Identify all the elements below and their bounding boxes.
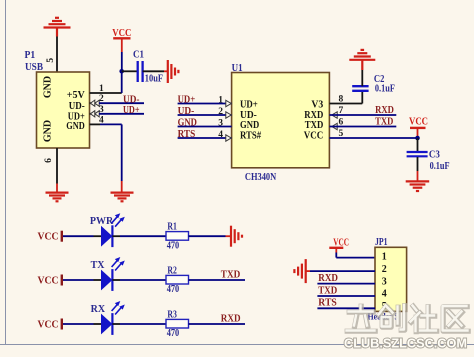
pin number 5 (rotated) [46,58,56,63]
svg-text:C1: C1 [133,50,144,61]
value 470 (R2) [167,284,180,295]
pin 3 of P1 [90,105,105,117]
label RX [91,304,106,315]
svg-text:VCC: VCC [38,320,59,331]
wire RTS to U1 pin4 [178,137,232,139]
svg-text:RXD: RXD [221,313,241,324]
svg-text:R2: R2 [167,266,177,277]
svg-text:GND: GND [43,120,54,142]
svg-text:VCC: VCC [38,232,59,243]
wire ground to JP1 pin2 [306,270,375,272]
svg-text:CLUB.SZLCSC.COM: CLUB.SZLCSC.COM [344,335,467,350]
connector P1 body [37,72,90,148]
svg-text:3: 3 [382,276,387,287]
svg-text:10uF: 10uF [145,73,163,84]
svg-text:2: 2 [218,107,223,117]
svg-text:+5V: +5V [67,90,86,101]
svg-text:3: 3 [218,119,223,129]
svg-text:1: 1 [382,251,387,262]
svg-text:P1: P1 [25,50,36,61]
label TX [91,260,106,271]
label PWR [90,216,114,227]
IC U1 CH340N body [232,73,330,168]
svg-text:UD-: UD- [178,106,195,117]
wire LED to R2 [120,279,166,281]
svg-text:UD+: UD+ [178,94,196,105]
ground GND-JP1 (rotated left) [294,259,305,283]
wire UD- from P1 pin2 [99,102,144,104]
pin 2 of U1 [218,107,231,118]
capacitor C2 [352,70,368,91]
LED RX [94,301,125,335]
designator U1 [232,63,243,74]
power port VCC JP1 [329,238,349,253]
svg-text:TXD: TXD [305,120,324,131]
net label UD- (U1) [178,106,195,117]
value 470 (R1) [167,240,180,251]
wire junction down to pin1 [121,71,123,93]
resistor R3 [166,319,189,328]
LED TX [94,257,125,291]
svg-text:4: 4 [382,289,387,300]
value 0.1uF (C3) [430,161,450,172]
pin 7 of U1 [332,106,344,118]
net label RXD (U1) [375,105,394,116]
svg-text:470: 470 [167,240,180,251]
svg-text:VCC: VCC [38,276,59,287]
part name CH340N [245,172,277,183]
resistor R2 [166,275,189,284]
net label TXD (U1) [375,116,393,127]
ground GND-P1pin4 [111,193,134,202]
designator JP1 [375,237,388,248]
designator P1 [25,50,36,61]
pin 3 of U1 [218,119,223,129]
pin 5 of U1 [339,129,344,139]
power port VCC top [112,28,131,52]
wire RXD from U1 pin7 [329,114,396,116]
comment USB [25,62,43,73]
wire UD- to U1 pin2 [178,114,232,116]
net label RXD (JP1) [318,273,338,284]
net label TXD (JP1) [318,285,337,296]
value 10uF [145,73,163,84]
svg-text:UD-: UD- [123,95,140,106]
svg-text:TXD: TXD [221,269,241,280]
svg-text:USB: USB [25,62,43,73]
svg-text:1: 1 [218,96,223,106]
wire VCC to LED D3 [63,323,94,325]
ground GND-C1 (rotated) [168,60,179,83]
wire GND to U1 pin3 [178,126,232,128]
wire U1 pin8 to C2 [329,91,362,104]
wire TXD from U1 pin6 [329,126,396,128]
designator R1 [167,222,177,233]
wire R3 to RXD [189,323,246,325]
svg-text:UD+: UD+ [240,100,258,111]
wire TXD to JP1 pin4 [317,295,375,297]
svg-text:V3: V3 [311,100,323,111]
net label UD+ (U1) [178,94,196,105]
connector JP1 body [375,247,407,311]
svg-text:0.1uF: 0.1uF [375,84,395,95]
pin 8 of U1 [339,95,344,105]
wire junction to C1 [122,70,137,72]
pin 6 of P1 [44,148,57,192]
svg-text:GND: GND [240,120,259,131]
svg-text:RXD: RXD [375,105,394,116]
power port VCC right [409,117,428,138]
svg-text:RTS#: RTS# [240,131,261,142]
value 470 (R3) [167,328,180,339]
svg-text:R1: R1 [167,222,177,233]
net label RTS (JP1) [318,298,337,309]
wire LED to R3 [120,323,166,325]
ground GND-C2 (flipped) [349,50,375,70]
ground GND-C3 [406,181,430,191]
svg-text:4: 4 [218,130,223,140]
wire P1 pin4 to ground [100,124,122,192]
svg-text:CH340N: CH340N [245,172,277,183]
power port VCC row1 (bar style) [38,231,62,243]
svg-text:0.1uF: 0.1uF [430,161,450,172]
svg-text:6: 6 [44,158,54,163]
wire R1 to ground [189,235,232,237]
pin 4 of P1 [90,115,105,125]
designator C1 [133,50,144,61]
svg-text:R3: R3 [167,310,177,321]
svg-text:VCC: VCC [409,117,428,128]
net label GND (U1) [178,117,197,128]
svg-text:C3: C3 [429,150,440,161]
svg-text:2: 2 [382,264,387,275]
wire P1 pin5 to ground [56,37,58,73]
resistor R1 [166,232,189,241]
watermark logo 立创社区 [347,306,468,332]
wire RTS to JP1 pin5 [317,307,375,309]
svg-text:TX: TX [91,260,106,271]
svg-text:RTS: RTS [178,129,196,140]
wire UD+ to U1 pin1 [178,103,232,105]
svg-text:470: 470 [167,328,180,339]
capacitor C3 [407,152,428,156]
wire UD+ from P1 pin3 [99,113,144,115]
svg-text:UD-: UD- [69,101,85,112]
wire VCC to LED D2 [63,279,94,281]
svg-text:VCC: VCC [304,131,324,142]
svg-text:470: 470 [167,284,180,295]
wire VCC to LED D1 [63,235,94,237]
LED PWR [94,213,125,247]
wire U1 pin5 to VCC junction [329,137,417,139]
designator R2 [167,266,177,277]
svg-text:TXD: TXD [318,285,337,296]
svg-text:RXD: RXD [318,273,338,284]
ground GND-P1pin6 [46,193,69,202]
power port VCC row3 (bar style) [38,319,62,331]
svg-text:JP1: JP1 [375,237,388,248]
svg-text:RX: RX [91,304,106,315]
part name Header 5 [368,312,399,322]
svg-text:RTS: RTS [318,298,337,309]
junction node at C1 [119,69,124,74]
ground GND-R1 (rotated) [231,226,242,247]
svg-text:GND: GND [178,117,197,128]
svg-text:GND: GND [66,121,85,132]
wire R2 to TXD [189,279,246,281]
svg-text:5: 5 [46,58,56,63]
pin 1 of U1 [218,96,231,107]
svg-text:PWR: PWR [90,216,114,227]
designator C3 [429,150,440,161]
wire VCC to junction [121,52,123,71]
capacitor C1 [138,61,143,82]
wire RXD to JP1 pin3 [317,283,375,285]
designator C2 [374,74,385,85]
designator R3 [167,310,177,321]
watermark text CLUB.SZLCSC.COM [344,335,467,350]
wire junction to C3 [417,138,419,151]
net label RTS [178,129,196,140]
svg-text:GND: GND [43,76,54,98]
power port VCC row2 (bar style) [38,275,62,287]
net label TXD (row2) [221,269,241,280]
junction node at C3 [415,136,420,141]
wire C3 to ground [417,157,419,181]
net label UD- [123,95,140,106]
ground GND-top above P1 pin 5 [44,18,71,37]
pin 4 of U1 [218,130,231,141]
svg-text:UD+: UD+ [123,105,140,116]
net label RXD (row3) [221,313,241,324]
pin 2 of P1 [90,94,105,106]
wire VCC to JP1 pin1 [336,253,375,258]
wire LED to R1 [120,235,166,237]
wire C1 to ground [143,70,168,72]
pin 6 of U1 [332,118,344,130]
net label UD+ [123,105,140,116]
value 0.1uF (C2) [375,84,395,95]
pin 1 of P1 [90,84,122,94]
svg-text:TXD: TXD [375,116,393,127]
